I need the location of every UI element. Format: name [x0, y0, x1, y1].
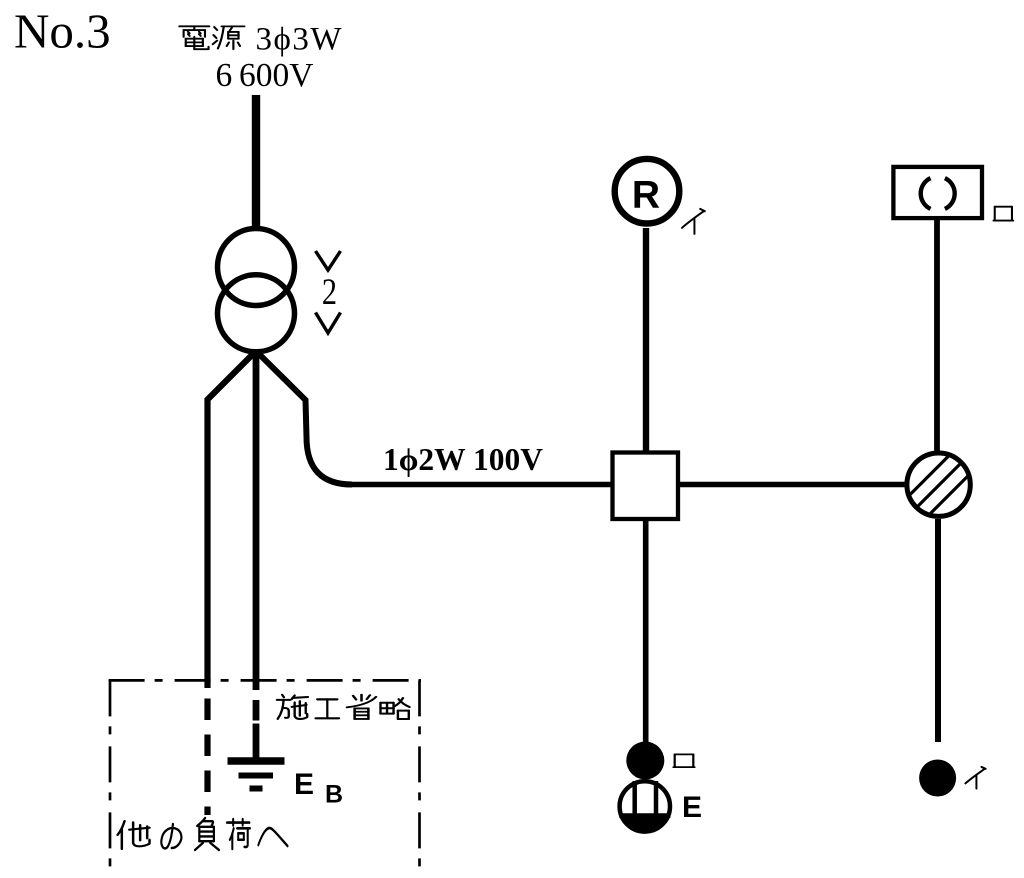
svg-text:6 600V: 6 600V: [216, 57, 314, 94]
svg-text:3ϕ3W: 3ϕ3W: [256, 22, 344, 58]
svg-text:No.3: No.3: [14, 4, 111, 59]
svg-text:R: R: [632, 174, 660, 217]
svg-text:2: 2: [322, 272, 337, 312]
svg-text:1ϕ2W 100V: 1ϕ2W 100V: [383, 442, 543, 477]
svg-text:E: E: [294, 768, 314, 801]
svg-text:E: E: [682, 791, 702, 824]
svg-text:B: B: [325, 781, 343, 809]
